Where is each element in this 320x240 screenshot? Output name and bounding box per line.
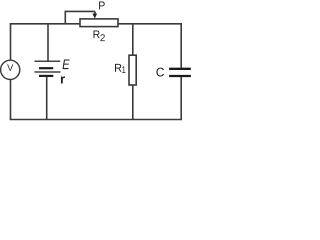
capacitor C bottom plate	[169, 75, 191, 77]
battery plate 4 (short thick)	[39, 75, 53, 77]
label E emf	[63, 59, 70, 69]
label R2 - R	[94, 31, 100, 39]
potentiometer R2 body	[80, 19, 118, 27]
wire battery bottom lead	[46, 76, 48, 120]
wire battery top lead	[47, 24, 49, 62]
capacitor C top plate	[169, 68, 191, 70]
voltmeter circle	[1, 60, 20, 79]
wire top	[10, 23, 182, 25]
wiper arrowhead	[92, 14, 97, 19]
label R2 - subscript 2	[100, 34, 104, 41]
label P	[99, 1, 105, 9]
label R1 - R	[115, 64, 121, 72]
battery plate 2 (short thick)	[39, 67, 53, 69]
wire wiper horizontal	[65, 10, 96, 12]
battery plate 1 (long)	[35, 60, 61, 62]
wire wiper drop	[94, 11, 96, 14]
wire R1 branch bottom	[132, 85, 134, 120]
label r internal resistance	[61, 76, 65, 83]
battery plate 3 (long)	[35, 71, 61, 73]
label C	[156, 68, 164, 77]
wire right lower	[180, 77, 182, 120]
wire left upper	[10, 24, 12, 60]
resistor R1 body	[129, 55, 136, 85]
wire wiper riser	[64, 11, 66, 23]
label V	[7, 64, 13, 70]
wire R1 branch top	[132, 24, 134, 55]
wire bottom	[10, 119, 182, 121]
label R1 - subscript 1	[122, 66, 125, 73]
wire right upper	[180, 24, 182, 68]
wire left lower	[10, 79, 12, 119]
